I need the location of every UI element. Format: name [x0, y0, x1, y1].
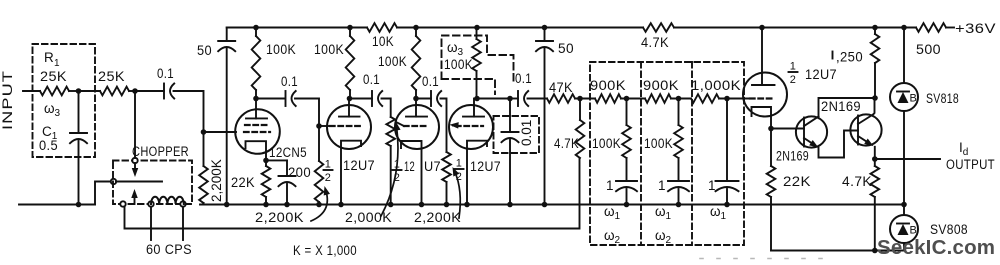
node plate resistor 3 top — [413, 25, 419, 31]
capacitor 0.1 coupling 4 — [430, 91, 432, 106]
capacitor 0.1 coupling 2 — [285, 91, 287, 106]
node plate 3 — [413, 96, 419, 102]
svg-text:K = X 1,000: K = X 1,000 — [293, 243, 357, 258]
vacuum tube V2 half 12U7 — [327, 105, 371, 149]
V3 plate — [415, 99, 417, 117]
svg-text:1: 1 — [606, 178, 614, 193]
node 47K out — [577, 96, 583, 102]
V4 cathode — [467, 141, 487, 205]
wire Q2 collector — [873, 98, 875, 115]
capacitor 50 rail mid — [542, 25, 548, 31]
node diode mid — [901, 202, 907, 208]
svg-text:R: R — [44, 50, 54, 65]
rail resistor 10K — [367, 23, 397, 32]
resistor 4.7K output — [874, 159, 876, 166]
resistor 25K second — [100, 87, 129, 96]
wire chopper feedback drop — [125, 158, 580, 229]
svg-text:100K: 100K — [378, 54, 407, 69]
node chopper tap — [132, 88, 138, 94]
wire rail to SV808 — [903, 205, 905, 216]
wire junction to 25K — [79, 90, 101, 92]
svg-text:2N169: 2N169 — [821, 99, 861, 114]
pot 2 wiper arrow from grid 3 — [397, 123, 404, 127]
svg-text:OUTPUT: OUTPUT — [946, 157, 995, 172]
potentiometer 2200K stage 3 — [442, 152, 451, 182]
wire cap to grid 2 — [295, 99, 319, 127]
wire grid 2 stub — [319, 125, 330, 127]
resistor R1 25K — [40, 87, 69, 96]
wire ground to chopper arm — [95, 182, 111, 205]
svg-text:INPUT: INPUT — [0, 70, 15, 130]
capacitor 1 lag 1 — [626, 158, 628, 181]
node lag 1 — [624, 96, 630, 102]
wire lag3 to grid 5 — [719, 98, 749, 100]
resistor 22K output — [770, 129, 772, 167]
wire Q1 emitter to Q2 base — [819, 131, 859, 158]
dashed divider 1 — [640, 62, 642, 245]
wire cap to pot 2 — [382, 99, 391, 118]
node pot 3 ground — [444, 202, 450, 208]
V1 control grid dashes — [244, 131, 270, 133]
node V2 cathode ground — [338, 202, 344, 208]
V2 plate — [348, 99, 350, 117]
V1 plate — [255, 99, 257, 119]
svg-text:25K: 25K — [40, 69, 67, 84]
node 22K ground — [263, 202, 269, 208]
wire 60cps lead 2 — [182, 207, 184, 240]
pot 2 curved arrow — [381, 126, 398, 216]
wire cap to grid corner — [174, 91, 204, 132]
V3 grid dashes — [404, 125, 428, 127]
chopper bottom contact 1 — [120, 201, 125, 206]
svg-text:12CN5: 12CN5 — [269, 145, 307, 160]
capacitor 50 rail left — [226, 28, 228, 42]
capacitor 0.1 coupling 5 — [510, 98, 518, 100]
capacitor 1 lag 2 — [678, 158, 680, 181]
node plate resistor 4 top — [474, 25, 480, 31]
svg-text:1: 1 — [325, 159, 332, 171]
node plate 1 — [253, 96, 259, 102]
capacitor 200 cathode bypass — [286, 160, 288, 176]
node V5 cathode — [768, 126, 774, 132]
wire 47K out — [575, 98, 595, 100]
node plate resistor 2 top — [347, 25, 353, 31]
scan artifact dots — [700, 258, 832, 260]
svg-text:2,000K: 2,000K — [345, 210, 392, 225]
wire plate 3 to cap — [416, 98, 431, 100]
V3 cathode — [401, 141, 422, 205]
capacitor 0.1 input coupling — [163, 84, 165, 99]
wire input stub — [23, 90, 40, 92]
resistor 100K plate 1 — [252, 36, 261, 90]
node cap1 ground — [624, 202, 630, 208]
capacitor 0.01 to ground — [509, 99, 511, 133]
svg-text:2: 2 — [456, 171, 463, 183]
node plate resistor 1 top — [253, 25, 259, 31]
node V4 cathode ground — [464, 202, 470, 208]
chopper armature arm — [116, 181, 162, 183]
dashed box lag networks — [590, 62, 744, 245]
svg-text:47K: 47K — [549, 80, 573, 95]
wire plate 2 to cap — [350, 98, 373, 100]
svg-text:100K: 100K — [644, 136, 673, 151]
B+ top rail left segment — [227, 27, 367, 29]
potentiometer 2200K stage 1 — [318, 126, 320, 161]
vacuum tube V1 12CN5 — [235, 109, 280, 154]
V5 cathode — [752, 107, 772, 129]
svg-text:0.01: 0.01 — [519, 120, 534, 146]
svg-text:0.1: 0.1 — [157, 66, 174, 81]
svg-text:SeekIC.com: SeekIC.com — [877, 236, 995, 259]
bias line — [771, 250, 904, 252]
node lag 2 — [676, 96, 682, 102]
output wire — [875, 158, 940, 160]
svg-text:4.7K: 4.7K — [842, 174, 872, 189]
svg-text:B: B — [910, 225, 918, 237]
svg-text:1: 1 — [456, 158, 463, 170]
wire SV818 to rail — [903, 111, 905, 205]
wire 60cps lead 1 — [150, 207, 152, 240]
chopper bottom contact 2 — [148, 201, 153, 206]
svg-text:2N169: 2N169 — [776, 149, 809, 164]
svg-text:1: 1 — [54, 58, 60, 69]
wire cathode to Q1 base — [771, 128, 804, 130]
chopper bottom contact 3 — [180, 201, 185, 206]
svg-text:1,000K: 1,000K — [691, 78, 741, 93]
V4 plate — [473, 99, 475, 117]
resistor 900K first — [595, 94, 621, 103]
resistor 500 supply — [916, 23, 946, 32]
svg-text:0.1: 0.1 — [363, 72, 380, 87]
chopper armature contact circle — [111, 179, 116, 184]
V1 cathode — [246, 141, 267, 160]
svg-text:B: B — [910, 93, 918, 105]
node cap2 ground — [676, 202, 682, 208]
resistor 250 collector load — [872, 25, 878, 31]
svg-text:2,200K: 2,200K — [255, 210, 304, 225]
resistor 22K cathode 1 — [262, 166, 271, 197]
chopper coil winding — [151, 197, 184, 204]
wire grid 1 — [204, 131, 237, 133]
svg-text:0.1: 0.1 — [281, 74, 298, 89]
wire to chopper node — [129, 90, 135, 92]
svg-text:100K: 100K — [314, 42, 344, 57]
svg-text:0.5: 0.5 — [39, 138, 58, 153]
svg-text:22K: 22K — [783, 174, 811, 189]
svg-text:1: 1 — [708, 178, 716, 193]
svg-text:900K: 900K — [643, 78, 679, 93]
pot 3 curved arrow — [455, 171, 461, 218]
svg-text:SV808: SV808 — [930, 222, 968, 237]
svg-text:4.7K: 4.7K — [641, 35, 669, 50]
svg-text:50: 50 — [558, 41, 574, 56]
diode SV818 — [890, 83, 918, 111]
svg-text:12U7: 12U7 — [470, 159, 501, 174]
wire cap5 to 47K — [528, 98, 548, 100]
svg-text:25K: 25K — [98, 69, 125, 84]
svg-text:+36V: +36V — [955, 21, 996, 36]
svg-text:4.7K: 4.7K — [554, 136, 579, 151]
wire lag2 to lag3 — [671, 98, 691, 100]
svg-text:22K: 22K — [231, 175, 255, 190]
svg-text:500: 500 — [916, 42, 941, 57]
svg-text:CHOPPER: CHOPPER — [132, 144, 189, 159]
wire R1 to junction — [69, 90, 79, 92]
wire 2200K grid leak — [203, 132, 205, 166]
svg-text:1: 1 — [394, 159, 401, 171]
svg-text:2,200K: 2,200K — [209, 159, 224, 202]
node plate 2 — [347, 96, 353, 102]
dashed box chopper — [113, 161, 192, 205]
node collector junction — [872, 95, 878, 101]
node 4.7K bias — [872, 248, 878, 254]
wire SV808 to bias line — [903, 243, 905, 251]
svg-text:100K: 100K — [266, 42, 296, 57]
wire V5 plate — [761, 28, 763, 86]
node V5 plate top — [759, 25, 765, 31]
wire Q2 emitter to output node — [874, 147, 876, 159]
svg-text:SV818: SV818 — [926, 91, 959, 106]
pot 3 wiper arrow from grid 4 — [453, 125, 458, 128]
node 200 cap ground — [284, 202, 290, 208]
svg-text:,250: ,250 — [836, 50, 863, 65]
V2 grid dashes — [330, 125, 360, 127]
svg-text:12: 12 — [404, 159, 415, 174]
node 0.01 tap — [507, 96, 513, 102]
node C1 ground — [76, 202, 82, 208]
resistor 100K plate 2 — [346, 36, 355, 90]
resistor 2200K grid leak — [199, 166, 208, 203]
svg-text:10K: 10K — [372, 34, 394, 49]
vacuum tube V5 half 12U7 output — [743, 73, 787, 117]
diode SV808 — [890, 215, 918, 243]
wire Q1 collector — [819, 98, 876, 117]
wire lag1 to lag2 — [621, 98, 645, 100]
svg-text:U7: U7 — [424, 159, 441, 174]
chopper top contact circle — [132, 158, 137, 163]
capacitor C1 0.5 — [78, 91, 80, 133]
V2 cathode — [341, 141, 361, 205]
svg-text:12U7: 12U7 — [343, 158, 375, 173]
node grid 1 junction — [201, 129, 207, 135]
transistor Q2 2N169 — [850, 114, 881, 145]
svg-text:2: 2 — [325, 172, 332, 184]
wire plate 1 to coupling cap — [256, 98, 285, 100]
svg-text:0.1: 0.1 — [515, 71, 532, 86]
wire 50 cap to ground — [226, 49, 228, 205]
B+ rail resistor 4.7K series — [643, 23, 674, 32]
node 50 cap ground — [224, 202, 230, 208]
wire to coupling cap — [135, 90, 164, 92]
svg-text:200: 200 — [288, 165, 311, 180]
svg-text:2: 2 — [394, 172, 401, 184]
svg-text:60 CPS: 60 CPS — [146, 242, 192, 257]
resistor 100K lag 1 — [626, 99, 628, 126]
wire cathode to 200 cap — [266, 159, 287, 161]
capacitor 1 lag 3 — [726, 99, 728, 182]
dashed divider 2 — [691, 62, 693, 245]
dashed box 0.01 — [494, 116, 540, 153]
svg-text:1: 1 — [790, 61, 797, 73]
B+ rail mid segment — [397, 27, 643, 29]
node cathode 1 — [263, 158, 269, 164]
wire chopper to input tap — [134, 91, 136, 158]
resistor 1000K — [691, 94, 719, 103]
resistor 100K lag 2 — [678, 99, 680, 126]
B+ rail right segment — [674, 27, 916, 29]
capacitor 0.1 coupling 3 — [371, 91, 373, 106]
svg-text:900K: 900K — [590, 78, 626, 93]
wire plate 4 to 0.01 node — [477, 98, 510, 100]
node lag 3 — [724, 96, 730, 102]
svg-text:100K: 100K — [444, 57, 473, 72]
svg-text:12U7: 12U7 — [805, 67, 837, 82]
node input junction A — [76, 88, 82, 94]
bottom common rail — [200, 204, 904, 206]
V5 plate bar — [752, 84, 775, 86]
vacuum tube V3 half 12U7 — [395, 105, 439, 149]
resistor 900K second — [645, 94, 671, 103]
dashed box input network R1 w3 C1 — [33, 44, 96, 157]
svg-text:100K: 100K — [592, 136, 621, 151]
chopper arrow down — [134, 163, 136, 170]
node grid 2 — [316, 123, 322, 129]
node 0.01 ground — [507, 202, 513, 208]
pot 1 wiper curved arrow — [311, 191, 327, 221]
svg-text:2: 2 — [790, 74, 797, 86]
wire cap to pot 3 — [441, 99, 447, 153]
node diode chain top — [901, 25, 907, 31]
chopper arrow up — [134, 196, 136, 204]
node pot 2 ground — [388, 202, 394, 208]
dashed box w3 network 2 — [442, 36, 514, 84]
V5 grid dashes — [750, 97, 773, 99]
resistor 100K feedback w3 — [472, 39, 481, 71]
V1 screen grid dashes — [245, 124, 269, 126]
vacuum tube V4 half 12U7 — [449, 105, 493, 149]
wire to SV818 — [903, 28, 905, 84]
wire 50 mid to ground — [544, 49, 546, 205]
resistor 100K plate 3 — [412, 36, 421, 90]
resistor 4.7K to feedback — [579, 99, 581, 121]
resistor 47K series — [547, 94, 575, 103]
node cap3 ground — [724, 202, 730, 208]
svg-text:50: 50 — [197, 43, 212, 58]
node 50 mid ground — [542, 202, 548, 208]
ground rail left — [19, 204, 95, 206]
transistor Q1 2N169 — [796, 116, 827, 147]
svg-text:1: 1 — [658, 178, 666, 193]
potentiometer 2000K — [386, 117, 395, 146]
node V3 cathode ground — [419, 202, 425, 208]
svg-text:0.1: 0.1 — [422, 74, 439, 89]
V4 grid dashes — [456, 125, 483, 127]
node plate 4 — [474, 96, 480, 102]
svg-text:2,200K: 2,200K — [414, 210, 461, 225]
node output — [872, 156, 878, 162]
node pot 1 ground — [316, 202, 322, 208]
